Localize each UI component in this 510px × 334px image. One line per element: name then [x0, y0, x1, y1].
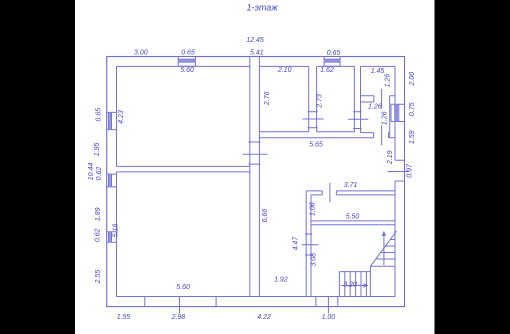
svg-text:1.26: 1.26 [368, 103, 382, 110]
svg-text:2.55: 2.55 [95, 270, 102, 285]
svg-text:1.06: 1.06 [309, 202, 316, 216]
svg-text:2.73: 2.73 [317, 94, 324, 109]
svg-text:1.26: 1.26 [384, 74, 391, 88]
svg-text:1.00: 1.00 [322, 314, 336, 321]
svg-text:3.08: 3.08 [310, 253, 317, 267]
svg-text:0.62: 0.62 [95, 228, 102, 242]
svg-text:6.66: 6.66 [262, 209, 269, 223]
svg-text:0.65: 0.65 [96, 108, 103, 122]
svg-text:2.76: 2.76 [264, 91, 271, 106]
svg-text:5.60: 5.60 [180, 67, 194, 74]
svg-text:2.19: 2.19 [387, 150, 394, 165]
svg-text:2.10: 2.10 [277, 67, 292, 74]
svg-text:1.55: 1.55 [117, 314, 131, 321]
svg-text:1.89: 1.89 [95, 207, 102, 221]
svg-text:10.44: 10.44 [88, 163, 95, 181]
svg-text:12.45: 12.45 [246, 37, 264, 44]
svg-text:4.23: 4.23 [118, 110, 125, 124]
svg-text:3.00: 3.00 [134, 49, 148, 56]
svg-text:3.71: 3.71 [344, 182, 358, 189]
svg-text:2.98: 2.98 [171, 314, 186, 321]
svg-text:4.22: 4.22 [257, 314, 271, 321]
svg-text:1.95: 1.95 [94, 142, 101, 156]
svg-text:0.62: 0.62 [96, 167, 103, 181]
svg-text:0.65: 0.65 [181, 49, 195, 56]
svg-text:0.65: 0.65 [327, 50, 341, 57]
svg-text:3.20: 3.20 [343, 282, 357, 289]
svg-text:0.97: 0.97 [407, 163, 414, 178]
svg-text:1.59: 1.59 [409, 130, 416, 144]
svg-text:4.47: 4.47 [292, 236, 299, 251]
svg-text:1-этаж: 1-этаж [246, 3, 278, 13]
svg-text:5.41: 5.41 [250, 49, 264, 56]
svg-text:1.45: 1.45 [371, 68, 385, 75]
svg-text:1.26: 1.26 [381, 111, 388, 125]
svg-text:1.62: 1.62 [320, 67, 334, 74]
svg-text:5.65: 5.65 [309, 142, 323, 149]
svg-text:2.00: 2.00 [409, 72, 416, 87]
svg-text:5.50: 5.50 [346, 214, 360, 221]
svg-text:1.92: 1.92 [274, 277, 288, 284]
svg-text:5.60: 5.60 [176, 284, 190, 291]
svg-text:0.75: 0.75 [409, 102, 416, 116]
svg-text:5.18: 5.18 [112, 224, 119, 238]
